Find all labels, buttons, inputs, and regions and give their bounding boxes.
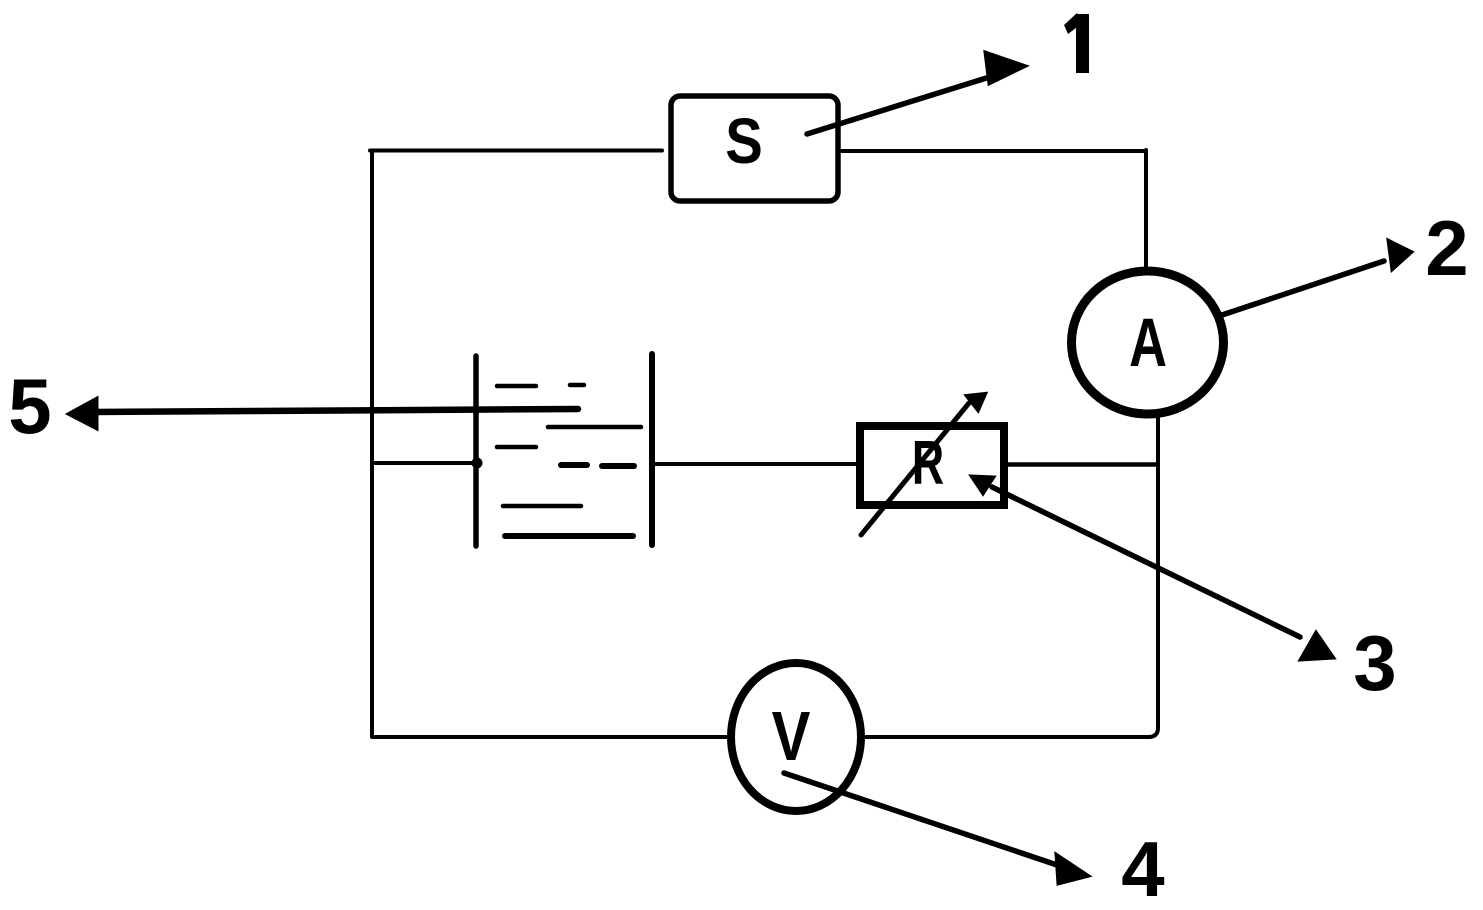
svg-text:2: 2 [1425, 204, 1468, 292]
wire left vertical [370, 152, 374, 736]
wire bottom left segment (voltmeter to left corner) [372, 735, 728, 739]
cell electrode left plate [473, 356, 479, 546]
switch S1 box [671, 96, 838, 201]
wire right vertical upper (to ammeter) [1144, 150, 1148, 268]
svg-text:3: 3 [1353, 619, 1396, 707]
label-5 arrow (points to liquid) [68, 398, 578, 429]
wire bottom right segment (corner to voltmeter) [866, 735, 1150, 739]
svg-text:4: 4 [1121, 825, 1164, 910]
label-2 arrow [1219, 240, 1412, 316]
wire rheostat to right vertical [1007, 462, 1155, 467]
cell electrode right plate [649, 354, 655, 545]
ammeter A1 circle [1072, 271, 1224, 414]
label-1 arrow [807, 52, 1026, 134]
svg-text:5: 5 [8, 362, 51, 450]
wire top-left horizontal to switch [370, 149, 662, 153]
wire cell to rheostat [652, 462, 858, 466]
wire right vertical lower (ammeter to bottom-right corner) [1148, 416, 1158, 737]
svg-text:S: S [725, 105, 763, 177]
wire switch to top-right corner [840, 149, 1146, 153]
label-4 arrow [784, 773, 1089, 884]
rheostat R1 box [860, 426, 1004, 505]
junction dot at cell left electrode [472, 458, 483, 469]
voltmeter V1 circle [731, 663, 861, 811]
svg-text:V: V [772, 697, 811, 775]
rheostat adjustment arrow [861, 394, 985, 535]
svg-text:A: A [1129, 304, 1167, 381]
wire middle horizontal (left wire to cell) [372, 461, 478, 465]
label-3 arrow (double-headed) [971, 476, 1334, 660]
electrolyte liquid level dashes [497, 385, 641, 536]
label 1 text [1064, 13, 1089, 73]
